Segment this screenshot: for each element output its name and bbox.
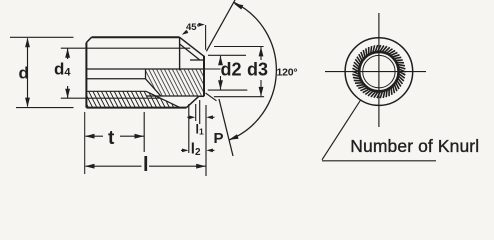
45 leader arrow right (200, 24, 202, 26)
d dimension extension bottom (16, 107, 74, 109)
svg-text:d: d (19, 63, 29, 82)
d4 line bottom / band divider (with left extension) (61, 97, 160, 99)
cone angle line lower (219, 99, 233, 156)
d2 extension bottom (208, 89, 248, 91)
H1 bottom line (146, 95, 199, 97)
right face (203, 56, 205, 97)
thread end cone (146, 79, 162, 96)
hatch solid wall section H1 (146, 69, 205, 96)
left face (85, 43, 87, 108)
bottom-right chamfer (187, 96, 199, 107)
d3 extension bottom (214, 96, 264, 98)
d3 dimension line (260, 47, 262, 60)
leader line diagonal (322, 100, 361, 160)
body outline (92, 36, 180, 38)
d2 extension top (208, 54, 246, 56)
svg-text:P: P (214, 130, 224, 147)
d dimension line (27, 38, 29, 106)
bore bottom line (86, 78, 145, 80)
left extension line (84, 112, 86, 174)
d4 line top (with left extension) (61, 47, 190, 49)
centerline horizontal (325, 71, 426, 73)
stub diagonal at lower right face (206, 93, 217, 101)
chamfer edge D1 (180, 37, 204, 56)
120deg arc (229, 2, 276, 140)
centerline vertical (378, 13, 380, 127)
l1 arrows (187, 116, 193, 118)
right end small top edge (190, 59, 204, 61)
bore top line (86, 68, 204, 70)
leader underline (322, 160, 436, 162)
45 extension vertical (205, 25, 207, 50)
d4 dimension line (67, 48, 69, 59)
svg-text:d3: d3 (247, 60, 268, 80)
outer circle (345, 38, 413, 106)
svg-text:Number of Knurl: Number of Knurl (350, 136, 479, 156)
chamfer edge D2 (180, 44, 200, 60)
knurl band top line (86, 90, 146, 92)
l dimension line (86, 165, 142, 167)
svg-text:45°: 45° (186, 22, 201, 33)
top-left chamfer (86, 37, 91, 42)
svg-text:120°: 120° (277, 67, 298, 79)
d2 leader stub (204, 68, 221, 70)
knurl band B2 (86, 98, 180, 107)
bore circle bold (359, 52, 398, 91)
small-end bottom corner (199, 95, 204, 97)
knurl ticks (352, 45, 405, 98)
t dimension line (86, 135, 104, 137)
right step vertical (179, 37, 181, 70)
knurl band B1 (86, 91, 160, 98)
thread depth extension line (143, 112, 145, 152)
svg-text:d2: d2 (221, 60, 242, 80)
svg-text:l: l (143, 154, 149, 176)
45 leader arrow left (184, 31, 188, 34)
cone angle line upper (206, 0, 235, 51)
right face extension line (205, 105, 207, 176)
d3 extension top (214, 46, 264, 48)
countersink extension line short (195, 104, 197, 121)
thread end wall (145, 69, 147, 79)
thread inner circle (363, 55, 395, 87)
svg-text:t: t (108, 128, 115, 149)
bottom edge (86, 107, 186, 109)
second short extension (199, 100, 201, 124)
chamfer start extension line (188, 104, 190, 153)
d2 dimension line (220, 56, 222, 62)
l2 arrows (181, 149, 187, 151)
knurl band taper (146, 91, 180, 107)
d dimension extension top (10, 36, 74, 38)
